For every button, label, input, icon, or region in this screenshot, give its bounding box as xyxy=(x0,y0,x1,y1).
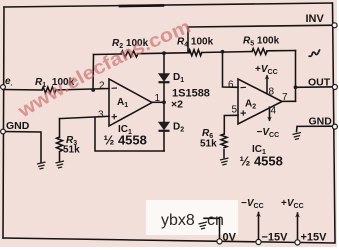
svg-text:+15V: +15V xyxy=(301,232,328,244)
svg-text:6: 6 xyxy=(228,80,234,91)
svg-text:−15V: −15V xyxy=(262,232,289,244)
svg-text:2: 2 xyxy=(99,81,105,92)
svg-text:R5 100k: R5 100k xyxy=(243,36,280,48)
svg-text:INV: INV xyxy=(306,13,325,25)
svg-text:GND: GND xyxy=(309,116,333,128)
svg-text:3: 3 xyxy=(98,110,104,121)
svg-text:4: 4 xyxy=(271,106,277,117)
svg-text:0V: 0V xyxy=(223,232,237,244)
svg-text:51k: 51k xyxy=(63,145,80,156)
svg-text:cn: cn xyxy=(207,212,224,229)
svg-text:5: 5 xyxy=(232,105,238,116)
svg-text:1: 1 xyxy=(155,93,161,104)
svg-text:½ 4558: ½ 4558 xyxy=(240,154,283,169)
svg-text:51k: 51k xyxy=(200,139,217,150)
svg-text:8: 8 xyxy=(269,87,275,98)
svg-text:7: 7 xyxy=(282,92,288,103)
svg-text:ybx8: ybx8 xyxy=(161,212,195,229)
svg-text:×2: ×2 xyxy=(171,99,183,111)
svg-text:½ 4558: ½ 4558 xyxy=(104,133,147,148)
svg-text:OUT: OUT xyxy=(308,77,331,89)
